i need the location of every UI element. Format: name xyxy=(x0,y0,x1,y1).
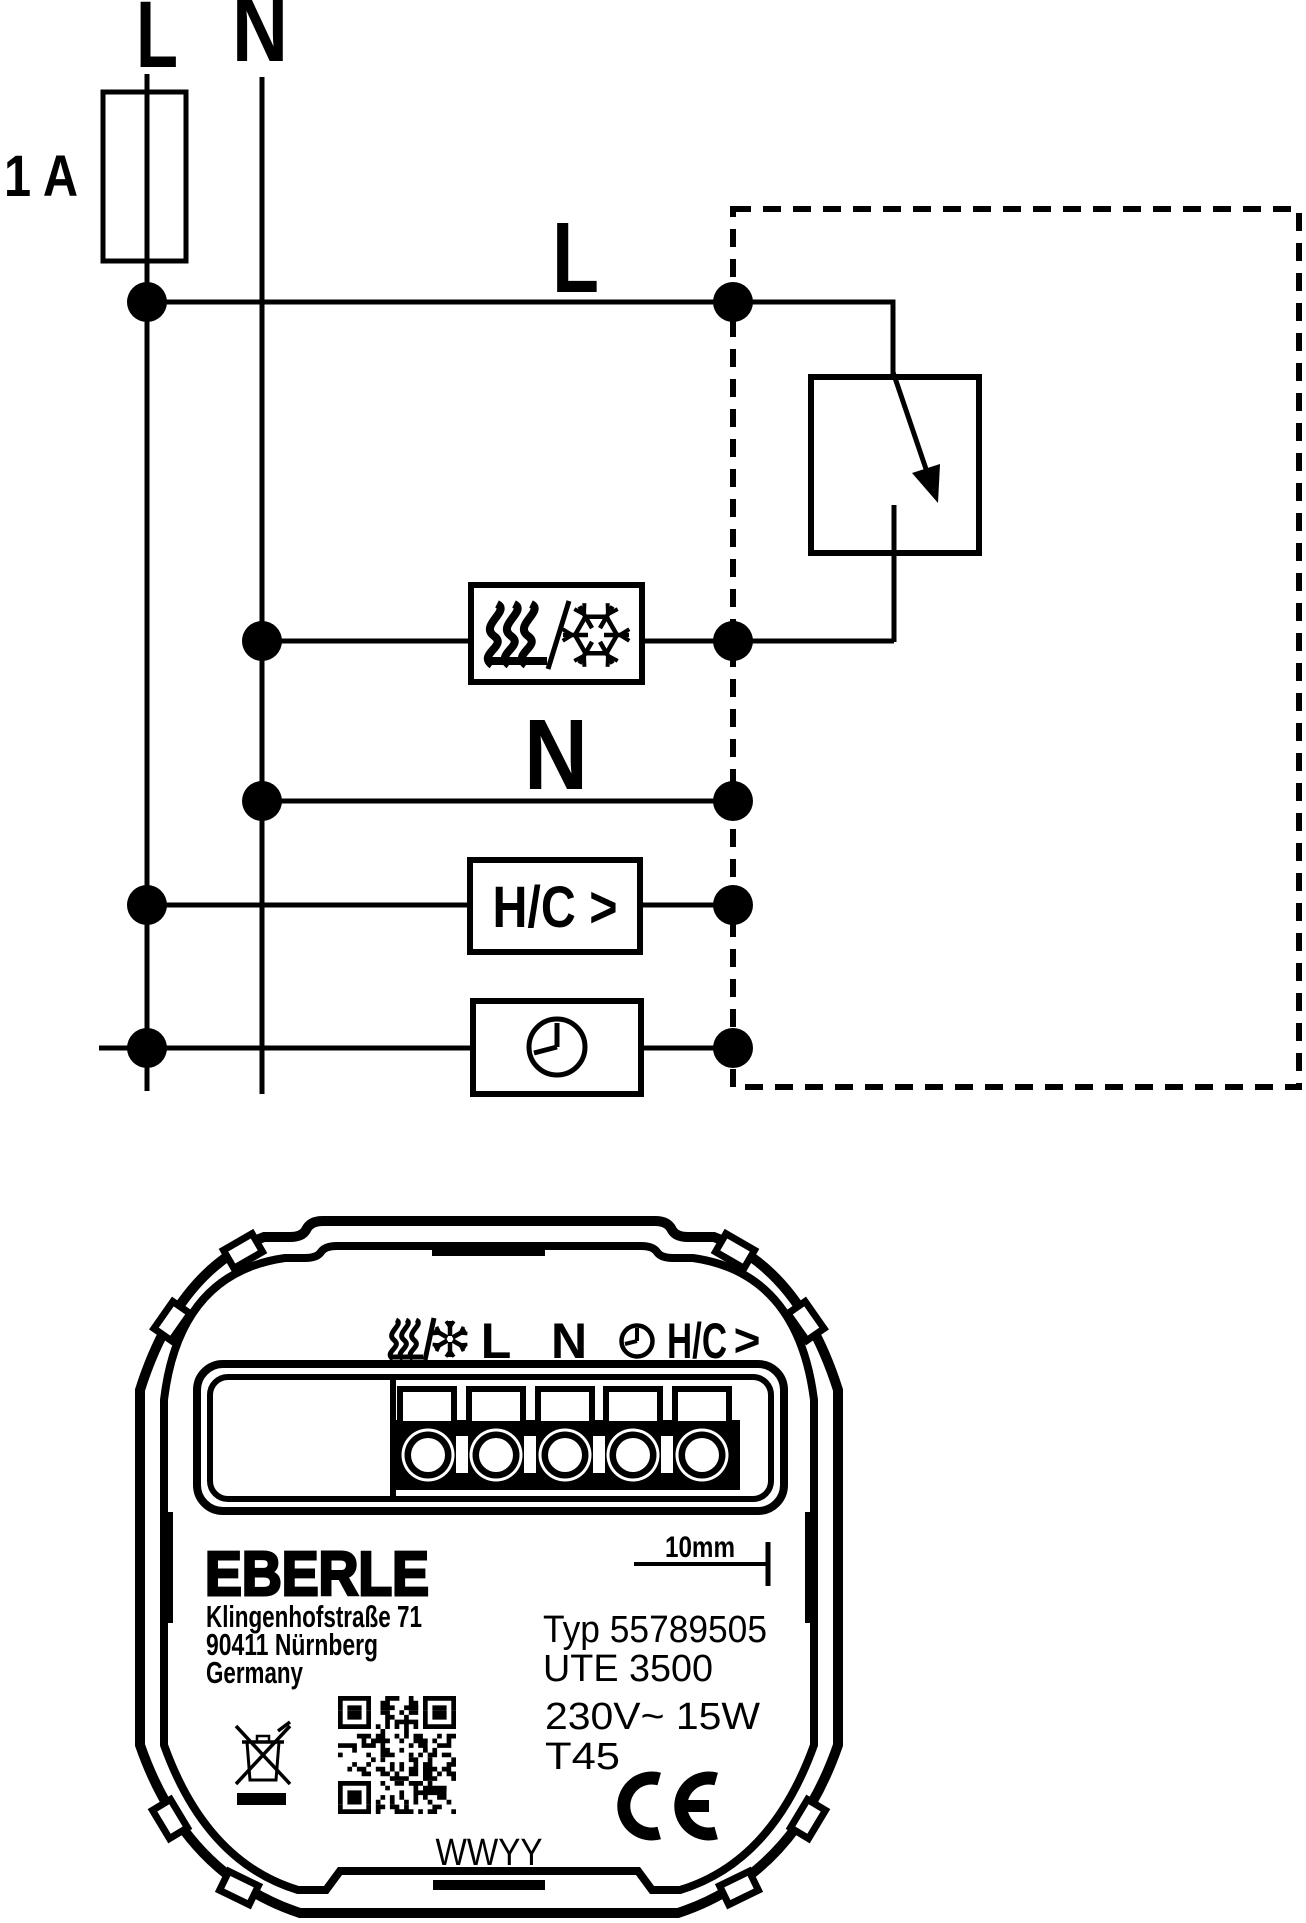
node timer wire at thermostat xyxy=(713,1028,753,1068)
wire entry opening L xyxy=(469,1389,523,1424)
terminal block divider xyxy=(390,1379,396,1497)
node junction L-line / H/C wire xyxy=(127,885,167,925)
wire timer input xyxy=(99,1046,733,1051)
10mm scale line xyxy=(634,1562,768,1566)
svg-text:230V~ 15W: 230V~ 15W xyxy=(545,1696,760,1738)
svg-text:L: L xyxy=(136,0,178,88)
svg-text:N: N xyxy=(551,1313,587,1369)
claw tab top-right b xyxy=(788,1301,824,1340)
claw tab top-left b xyxy=(154,1301,190,1340)
terminal cell gap xyxy=(456,1436,468,1473)
switch (relay contact) box xyxy=(811,377,979,553)
svg-text:H/C >: H/C > xyxy=(493,875,618,940)
wire N vertical xyxy=(260,77,265,1094)
device outer housing outline xyxy=(140,1221,838,1913)
right inner claw slot xyxy=(805,1512,812,1623)
node junction N-line / heat wire xyxy=(242,621,282,661)
screw terminal H/C xyxy=(676,1429,729,1482)
terminal cell gap xyxy=(593,1436,605,1473)
device top snap notch xyxy=(432,1246,545,1256)
wire entry opening heat/cool output xyxy=(400,1389,454,1424)
screw terminal timer xyxy=(607,1429,660,1482)
node junction L-line / L-wire xyxy=(127,282,167,322)
H/C signal box xyxy=(470,860,640,952)
claw tab bottom-left b xyxy=(220,1871,259,1904)
svg-text:T45: T45 xyxy=(545,1736,620,1778)
left inner claw slot xyxy=(166,1512,173,1623)
timer box xyxy=(473,1001,641,1094)
WEEE underline bar xyxy=(237,1793,286,1805)
wire N horizontal xyxy=(262,799,733,804)
node N wire at thermostat xyxy=(713,781,753,821)
svg-text:N: N xyxy=(232,0,288,82)
screw terminal L xyxy=(470,1429,523,1482)
terminal label clock icon xyxy=(622,1326,653,1357)
node junction N-line / N-wire xyxy=(242,781,282,821)
svg-text:UTE 3500: UTE 3500 xyxy=(543,1648,713,1690)
claw tab bottom-left a xyxy=(153,1799,188,1838)
claw tab top-left a xyxy=(223,1234,262,1269)
node heat wire at thermostat xyxy=(713,621,753,661)
claw tab bottom-right a xyxy=(791,1799,826,1838)
screw terminal heat/cool output xyxy=(402,1429,455,1482)
wire entry opening N xyxy=(538,1389,592,1424)
svg-text:L: L xyxy=(481,1313,512,1369)
wire H/C input xyxy=(147,903,733,908)
wire from L node to switch xyxy=(733,302,893,374)
svg-text:N: N xyxy=(524,699,588,811)
terminal label heating icon xyxy=(390,1320,398,1359)
timer clock icon xyxy=(529,1019,585,1075)
heating icon squiggles xyxy=(488,604,501,665)
wire heat output xyxy=(262,639,894,644)
terminal block outer frame xyxy=(197,1364,784,1511)
CE mark xyxy=(624,1778,659,1834)
heating/cooling load box xyxy=(471,585,642,682)
fuse F1 1A xyxy=(103,92,186,261)
thermostat dashed outline box xyxy=(733,209,1299,1087)
terminal block inner frame xyxy=(210,1377,771,1499)
wire entry opening H/C xyxy=(675,1389,729,1424)
switch bottom pin xyxy=(892,505,897,642)
node junction L-line / timer wire xyxy=(127,1028,167,1068)
terminal cell gap xyxy=(661,1436,673,1473)
screw terminal N xyxy=(539,1429,592,1482)
slash separator xyxy=(548,601,569,669)
device inner housing outline xyxy=(164,1246,814,1890)
svg-text:10mm: 10mm xyxy=(665,1531,735,1564)
node H/C wire at thermostat xyxy=(713,885,753,925)
terminal label slash xyxy=(425,1318,434,1360)
heating icon underline xyxy=(486,657,547,665)
node junction L-wire at thermostat xyxy=(713,282,753,322)
claw tab top-right a xyxy=(715,1234,754,1269)
svg-text:WWYY: WWYY xyxy=(436,1832,543,1874)
svg-text:1 A: 1 A xyxy=(4,144,78,209)
device bottom snap notch xyxy=(433,1880,545,1890)
svg-text:>: > xyxy=(734,1314,761,1366)
WEEE crossed-out bin icon xyxy=(247,1742,279,1780)
claw tab bottom-right b xyxy=(720,1871,759,1904)
cooling snowflake icon xyxy=(575,617,617,653)
svg-text:Typ 55789505: Typ 55789505 xyxy=(543,1609,767,1651)
terminal label snowflake xyxy=(448,1342,453,1357)
10mm scale end tick xyxy=(766,1542,771,1586)
svg-text:Germany: Germany xyxy=(206,1655,304,1690)
switch arrowhead xyxy=(912,464,940,503)
svg-text:H/C: H/C xyxy=(667,1313,727,1369)
screw terminal strip background xyxy=(395,1420,740,1490)
svg-text:L: L xyxy=(552,202,599,314)
wire L vertical xyxy=(145,74,150,1091)
QR code xyxy=(338,1696,456,1814)
switch contact arm xyxy=(893,372,926,469)
terminal cell gap xyxy=(524,1436,536,1473)
wire entry opening timer xyxy=(606,1389,660,1424)
wire L horizontal xyxy=(147,300,733,305)
